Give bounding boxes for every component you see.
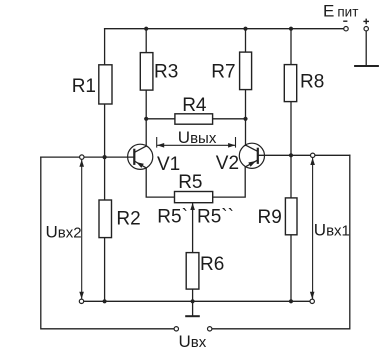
supply terminal Epit plus [364, 27, 368, 31]
wire R4 collector-collector [146, 118, 245, 120]
svg-text:R2: R2 [116, 209, 140, 230]
wire right outer loop down to Uvx [212, 155, 350, 328]
terminal Uvx2 bottom [79, 299, 83, 303]
wire R1-R2 branch vertical [104, 29, 106, 302]
ground common (bottom) [185, 301, 200, 316]
junction base V2 / R8-R9 [289, 153, 293, 157]
svg-text:R5``: R5`` [197, 207, 234, 228]
terminal Uvx1 bottom [310, 299, 314, 303]
wire R5 wiper to R6 [192, 203, 194, 253]
wire left outer loop down to Uvx [41, 157, 174, 329]
potentiometer R5 wiper arrow [190, 203, 195, 210]
wire bottom common rail [84, 300, 311, 302]
svg-text:V1: V1 [157, 154, 180, 175]
polarity plus sign [363, 19, 369, 25]
resistor R3 [140, 53, 153, 91]
polarity minus sign [343, 20, 347, 22]
svg-text:Uвх: Uвх [179, 332, 207, 351]
junction top rail / R8 [289, 27, 293, 31]
junction R4 left / collector V1 [144, 117, 148, 121]
resistor R7 [240, 52, 252, 90]
terminal Uvx1 top [311, 153, 315, 157]
svg-text:R5`: R5` [157, 207, 188, 228]
junction bottom rail / R9 [289, 299, 293, 303]
transistor V1 [128, 144, 153, 169]
wire supply plus to common [365, 31, 367, 66]
wire R3 / collector V1 vertical [145, 29, 147, 147]
terminal Uvx left [174, 327, 178, 331]
terminal Uvx right [208, 327, 212, 331]
wire left input branch (base V1) [41, 156, 135, 158]
ground common (supply) [354, 65, 379, 67]
junction bottom rail / R6 [191, 299, 195, 303]
resistor R5 (potentiometer body) [175, 192, 213, 203]
resistor R8 [284, 65, 296, 102]
junction top rail / R7 [243, 27, 247, 31]
transistor V2 [239, 143, 264, 168]
svg-text:Uвх1: Uвх1 [314, 220, 350, 239]
svg-text:R3: R3 [154, 62, 178, 83]
junction R4 right / collector V2 [243, 117, 247, 121]
svg-text:Uвх2: Uвх2 [46, 223, 82, 242]
svg-text:R8: R8 [300, 72, 324, 93]
junction base V1 / R1-R2 [103, 155, 107, 159]
svg-text:R9: R9 [258, 207, 282, 228]
input measure Uvx2 dimension [81, 157, 83, 301]
svg-text:R6: R6 [200, 254, 224, 275]
svg-text:R7: R7 [211, 62, 235, 83]
supply terminal Epit minus [344, 27, 348, 31]
svg-text:R5: R5 [178, 172, 202, 193]
input measure Uvx1 dimension [312, 155, 314, 301]
resistor R2 [99, 200, 112, 238]
wire emitter V2 to R5 [213, 167, 246, 197]
junction top rail / R3 [144, 27, 148, 31]
wire R6 to bottom rail [192, 289, 194, 301]
resistor R9 [285, 198, 297, 235]
wire emitter V1 to R5 [146, 168, 174, 197]
output measure Uvyh dimension [157, 137, 236, 148]
svg-text:V2: V2 [216, 153, 239, 174]
svg-text:R1: R1 [72, 76, 96, 97]
resistor R6 [186, 253, 199, 290]
svg-text:Uвых: Uвых [178, 128, 217, 147]
junction bottom rail / R2 [103, 299, 107, 303]
wire R8-R9 branch vertical [290, 29, 292, 302]
svg-text:R4: R4 [182, 95, 207, 116]
terminal Uvx2 top [80, 155, 84, 159]
wire top supply rail [105, 28, 344, 30]
resistor R1 [99, 65, 112, 104]
wire R7 / collector V2 vertical [245, 29, 247, 146]
wire right input branch (base V2) [258, 154, 350, 156]
svg-text:Eпит: Eпит [323, 1, 358, 20]
resistor R4 [175, 114, 213, 124]
